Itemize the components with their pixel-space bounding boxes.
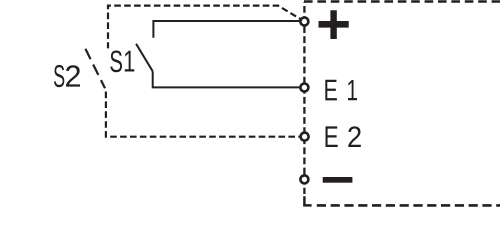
switch S2 blade (dashed, open) bbox=[85, 49, 105, 89]
label E 2 bbox=[326, 126, 361, 147]
terminal bus / enclosure left edge (dashed vertical through terminals) bbox=[303, 2, 305, 194]
terminal E1 (circle) bbox=[300, 84, 308, 92]
wire: solid from switch S1 to terminal E1 bbox=[153, 71, 300, 87]
terminal + (circle) bbox=[300, 18, 308, 26]
label E 1 bbox=[325, 80, 357, 101]
label - (minus symbol) bbox=[323, 177, 353, 183]
enclosure top edge (dashed) bbox=[304, 0, 500, 3]
label + (plus symbol) bbox=[319, 10, 349, 39]
wire: dashed from S2 down and right to terminal E2 bbox=[106, 92, 300, 137]
label S2 bbox=[54, 65, 80, 87]
enclosure bottom-left corner bbox=[304, 196, 311, 205]
wire: dashed branch from + terminal up-left and down left side to switch S2 bbox=[108, 6, 300, 49]
enclosure bottom edge (dashed) bbox=[317, 204, 500, 207]
wire: solid from + terminal to switch S1 top contact bbox=[153, 21, 299, 38]
label S1 bbox=[110, 51, 134, 73]
switch S1 blade (open) bbox=[136, 44, 153, 72]
terminal E2 (circle) bbox=[301, 133, 309, 141]
terminal - (circle) bbox=[300, 175, 308, 183]
